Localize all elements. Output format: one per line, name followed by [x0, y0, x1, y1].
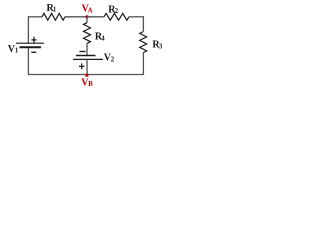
wire bottom — [28, 74, 144, 76]
svg-text:2: 2 — [111, 57, 115, 64]
svg-text:1: 1 — [15, 48, 19, 55]
label V2 — [104, 53, 115, 64]
svg-text:1: 1 — [53, 7, 57, 14]
wire right side upper — [142, 16, 144, 31]
wire middle branch top — [86, 17, 88, 23]
V2 minus sign — [80, 51, 86, 53]
V1 negative plate — [20, 46, 42, 48]
label V1 — [8, 44, 19, 55]
wire R4 to battery V2 — [86, 43, 88, 55]
V1 plus sign — [31, 37, 36, 44]
node B junction dot — [85, 74, 88, 77]
V1 positive plate — [16, 42, 44, 44]
V2 negative plate — [76, 55, 96, 57]
label R1 — [47, 3, 57, 14]
label VA — [82, 4, 93, 15]
battery V1 — [16, 37, 44, 53]
V1 minus sign — [31, 51, 36, 53]
svg-text:B: B — [88, 81, 93, 88]
wire right side lower — [142, 53, 144, 75]
wire R2 to top-right corner — [129, 16, 144, 18]
svg-text:2: 2 — [115, 8, 119, 15]
svg-text:3: 3 — [159, 43, 163, 50]
svg-text:4: 4 — [101, 35, 105, 42]
resistor R2 — [104, 13, 129, 20]
resistor R3 — [140, 32, 147, 53]
V2 plus sign — [79, 63, 84, 69]
V2 positive plate — [73, 58, 103, 60]
resistor R1 — [42, 13, 65, 20]
label R4 — [95, 32, 105, 43]
battery V2 — [73, 52, 103, 70]
resistor R4 — [84, 23, 91, 44]
svg-text:A: A — [88, 7, 93, 14]
wire node A to R2 — [87, 16, 104, 18]
node A junction dot — [85, 15, 88, 18]
wire left side upper — [27, 16, 29, 43]
label VB — [81, 77, 93, 88]
label R2 — [108, 5, 118, 16]
wire left side lower — [27, 48, 29, 75]
wire R1 to node A — [65, 16, 87, 18]
wire top-left (corner to R1) — [28, 16, 42, 18]
wire battery V2 to node B — [86, 59, 88, 75]
label R3 — [152, 40, 163, 51]
